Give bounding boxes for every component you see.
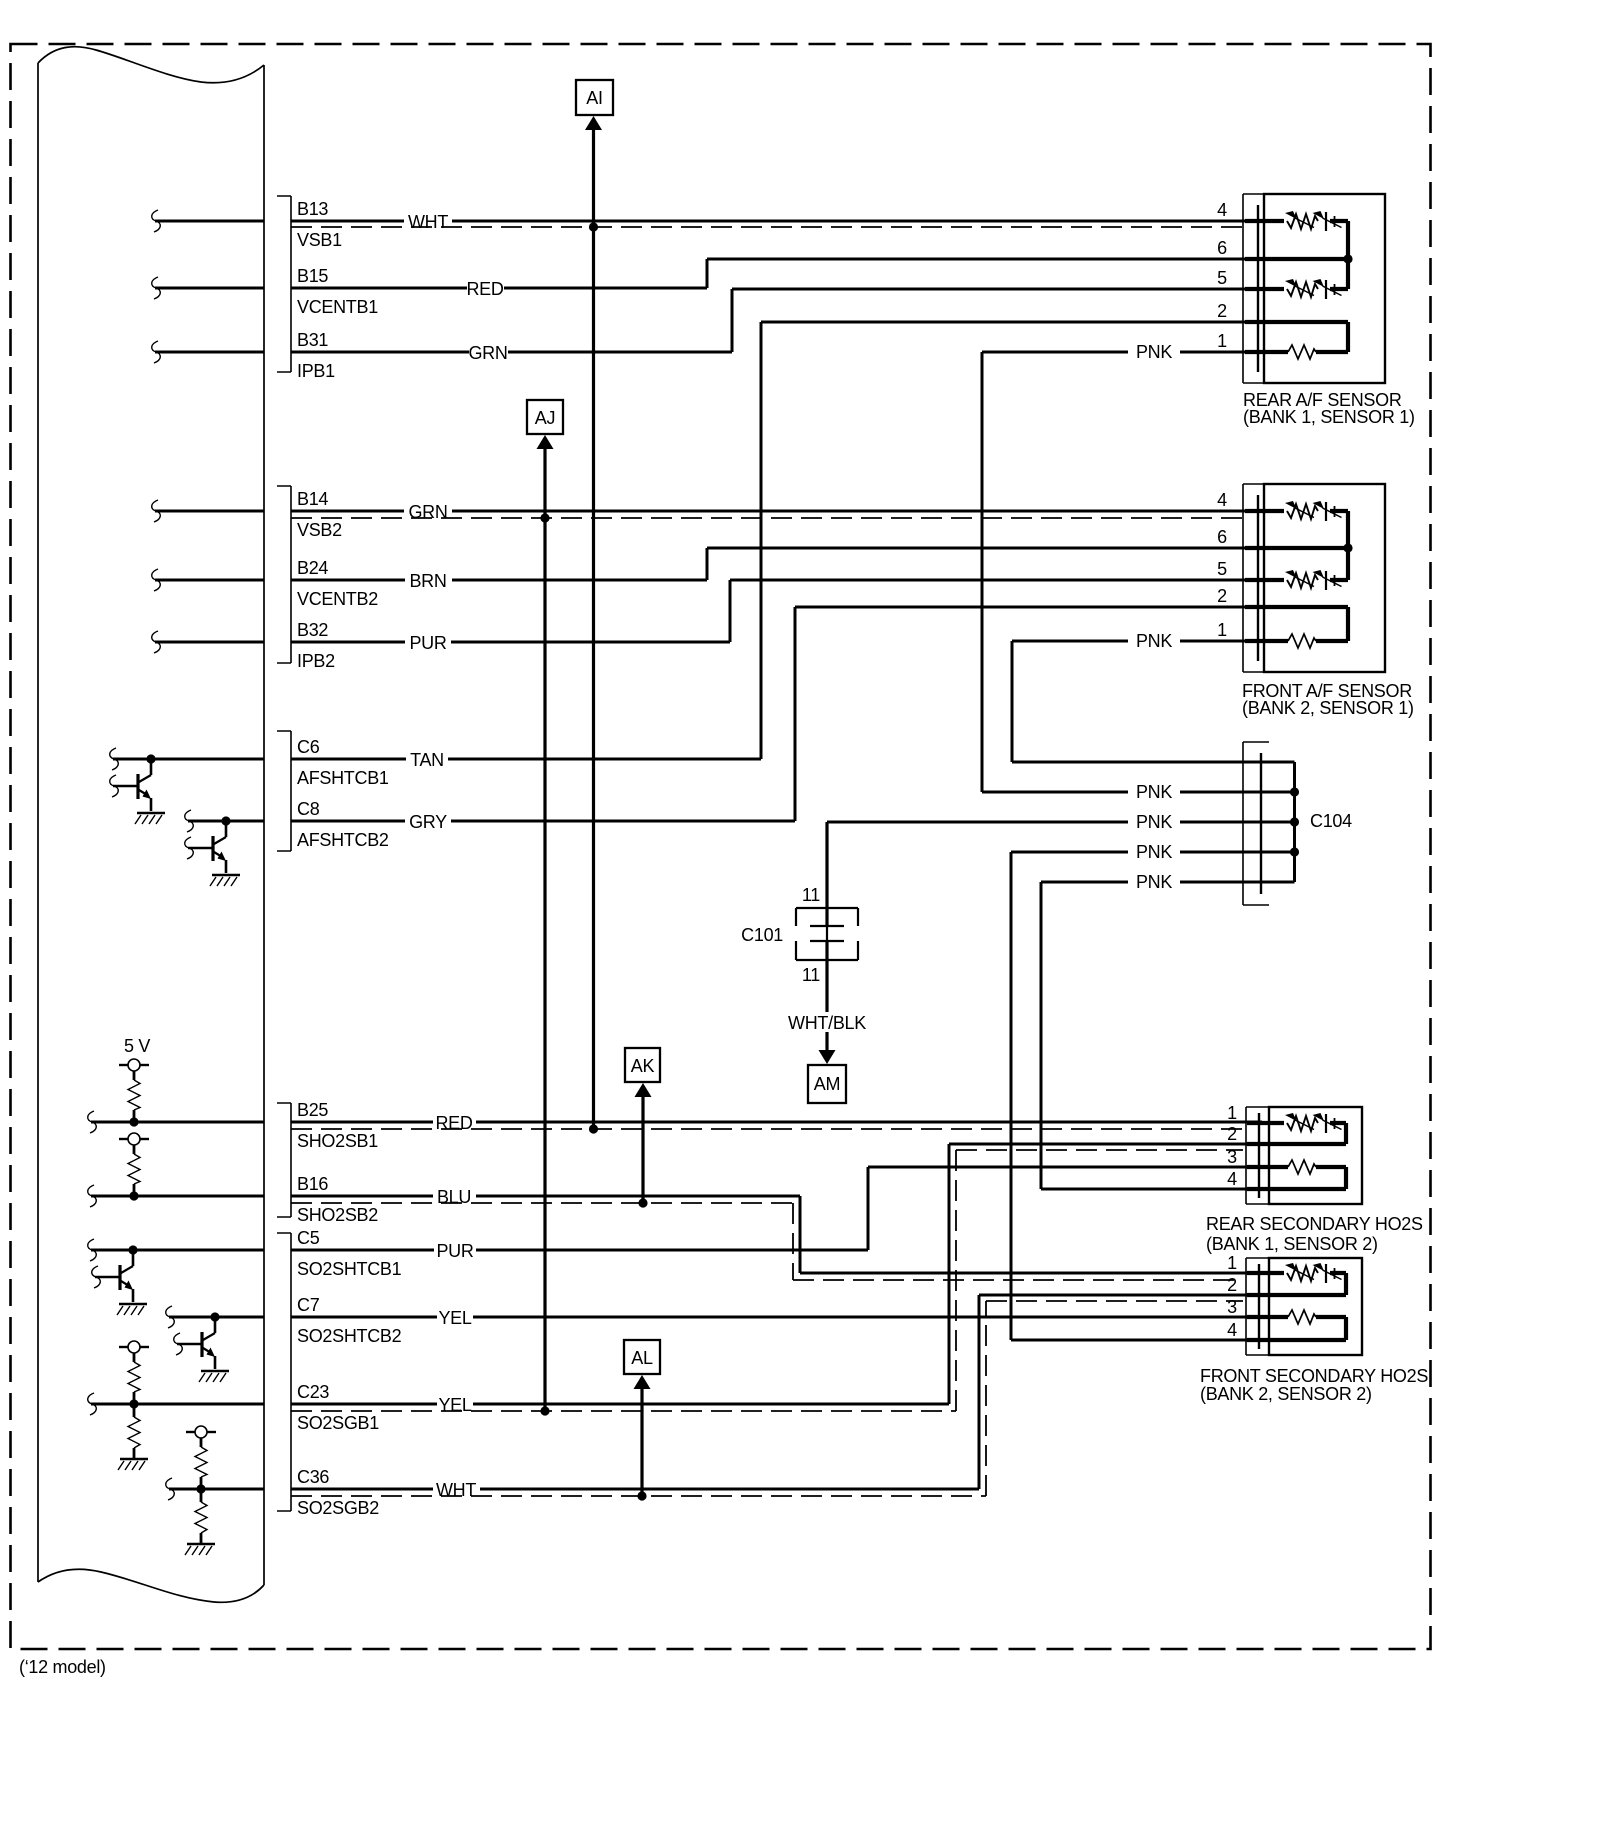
svg-text:PNK: PNK [1136, 812, 1172, 832]
svg-text:AFSHTCB1: AFSHTCB1 [297, 768, 389, 788]
svg-text:WHT: WHT [408, 212, 448, 232]
svg-text:IPB1: IPB1 [297, 361, 335, 381]
svg-text:FRONT SECONDARY HO2S: FRONT SECONDARY HO2S [1200, 1366, 1428, 1386]
svg-text:4: 4 [1217, 200, 1227, 220]
svg-text:(BANK 2, SENSOR 2): (BANK 2, SENSOR 2) [1200, 1384, 1372, 1404]
svg-text:1: 1 [1217, 331, 1227, 351]
svg-text:C6: C6 [297, 737, 320, 757]
svg-text:C8: C8 [297, 799, 320, 819]
svg-text:WHT/BLK: WHT/BLK [788, 1013, 866, 1033]
svg-text:B13: B13 [297, 199, 328, 219]
svg-text:PNK: PNK [1136, 872, 1172, 892]
svg-text:(BANK 1, SENSOR 1): (BANK 1, SENSOR 1) [1243, 407, 1415, 427]
svg-text:GRY: GRY [409, 812, 447, 832]
svg-text:IPB2: IPB2 [297, 651, 335, 671]
svg-text:B14: B14 [297, 489, 328, 509]
svg-text:YEL: YEL [438, 1395, 471, 1415]
svg-text:AFSHTCB2: AFSHTCB2 [297, 830, 389, 850]
svg-text:AK: AK [631, 1056, 655, 1076]
svg-text:PNK: PNK [1136, 342, 1172, 362]
svg-text:2: 2 [1217, 301, 1227, 321]
svg-text:11: 11 [802, 885, 820, 905]
svg-text:4: 4 [1227, 1320, 1237, 1340]
svg-text:AM: AM [814, 1074, 840, 1094]
svg-text:B16: B16 [297, 1174, 328, 1194]
svg-text:3: 3 [1227, 1297, 1237, 1317]
svg-text:RED: RED [435, 1113, 472, 1133]
svg-text:AL: AL [631, 1348, 653, 1368]
svg-text:PNK: PNK [1136, 782, 1172, 802]
svg-text:GRN: GRN [408, 502, 447, 522]
svg-text:5 V: 5 V [124, 1036, 150, 1056]
svg-text:3: 3 [1227, 1147, 1237, 1167]
svg-text:BRN: BRN [409, 571, 446, 591]
svg-text:5: 5 [1217, 559, 1227, 579]
svg-text:SO2SHTCB1: SO2SHTCB1 [297, 1259, 402, 1279]
svg-text:PNK: PNK [1136, 842, 1172, 862]
svg-text:(BANK 2, SENSOR 1): (BANK 2, SENSOR 1) [1242, 698, 1414, 718]
svg-text:(‘12 model): (‘12 model) [19, 1657, 106, 1677]
svg-text:PUR: PUR [409, 633, 446, 653]
svg-text:SO2SGB1: SO2SGB1 [297, 1413, 379, 1433]
svg-text:PNK: PNK [1136, 631, 1172, 651]
svg-text:B31: B31 [297, 330, 328, 350]
svg-text:SO2SGB2: SO2SGB2 [297, 1498, 379, 1518]
svg-text:2: 2 [1217, 586, 1227, 606]
svg-text:5: 5 [1217, 268, 1227, 288]
svg-text:1: 1 [1227, 1253, 1237, 1273]
svg-text:4: 4 [1227, 1169, 1237, 1189]
svg-text:YEL: YEL [438, 1308, 471, 1328]
svg-text:11: 11 [802, 965, 820, 985]
svg-text:C104: C104 [1310, 811, 1352, 831]
svg-text:C5: C5 [297, 1228, 320, 1248]
svg-text:SHO2SB1: SHO2SB1 [297, 1131, 378, 1151]
svg-text:B15: B15 [297, 266, 328, 286]
svg-text:AJ: AJ [535, 408, 555, 428]
svg-text:C36: C36 [297, 1467, 329, 1487]
svg-text:VCENTB1: VCENTB1 [297, 297, 378, 317]
svg-text:VCENTB2: VCENTB2 [297, 589, 378, 609]
svg-text:VSB2: VSB2 [297, 520, 342, 540]
svg-text:B25: B25 [297, 1100, 328, 1120]
svg-text:VSB1: VSB1 [297, 230, 342, 250]
svg-text:TAN: TAN [410, 750, 444, 770]
svg-text:2: 2 [1227, 1124, 1237, 1144]
svg-text:4: 4 [1217, 490, 1227, 510]
svg-text:6: 6 [1217, 238, 1227, 258]
svg-text:C7: C7 [297, 1295, 320, 1315]
svg-text:BLU: BLU [437, 1187, 471, 1207]
svg-text:GRN: GRN [468, 343, 507, 363]
svg-text:WHT: WHT [436, 1480, 476, 1500]
svg-text:1: 1 [1227, 1103, 1237, 1123]
svg-text:SO2SHTCB2: SO2SHTCB2 [297, 1326, 402, 1346]
svg-text:1: 1 [1217, 620, 1227, 640]
svg-text:(BANK 1, SENSOR 2): (BANK 1, SENSOR 2) [1206, 1234, 1378, 1254]
svg-text:SHO2SB2: SHO2SB2 [297, 1205, 378, 1225]
svg-text:C23: C23 [297, 1382, 329, 1402]
svg-text:AI: AI [586, 88, 602, 108]
svg-text:B32: B32 [297, 620, 328, 640]
svg-text:B24: B24 [297, 558, 328, 578]
svg-text:PUR: PUR [436, 1241, 473, 1261]
svg-text:2: 2 [1227, 1275, 1237, 1295]
svg-text:RED: RED [466, 279, 503, 299]
svg-text:REAR SECONDARY HO2S: REAR SECONDARY HO2S [1206, 1214, 1423, 1234]
svg-text:C101: C101 [741, 925, 783, 945]
svg-text:6: 6 [1217, 527, 1227, 547]
